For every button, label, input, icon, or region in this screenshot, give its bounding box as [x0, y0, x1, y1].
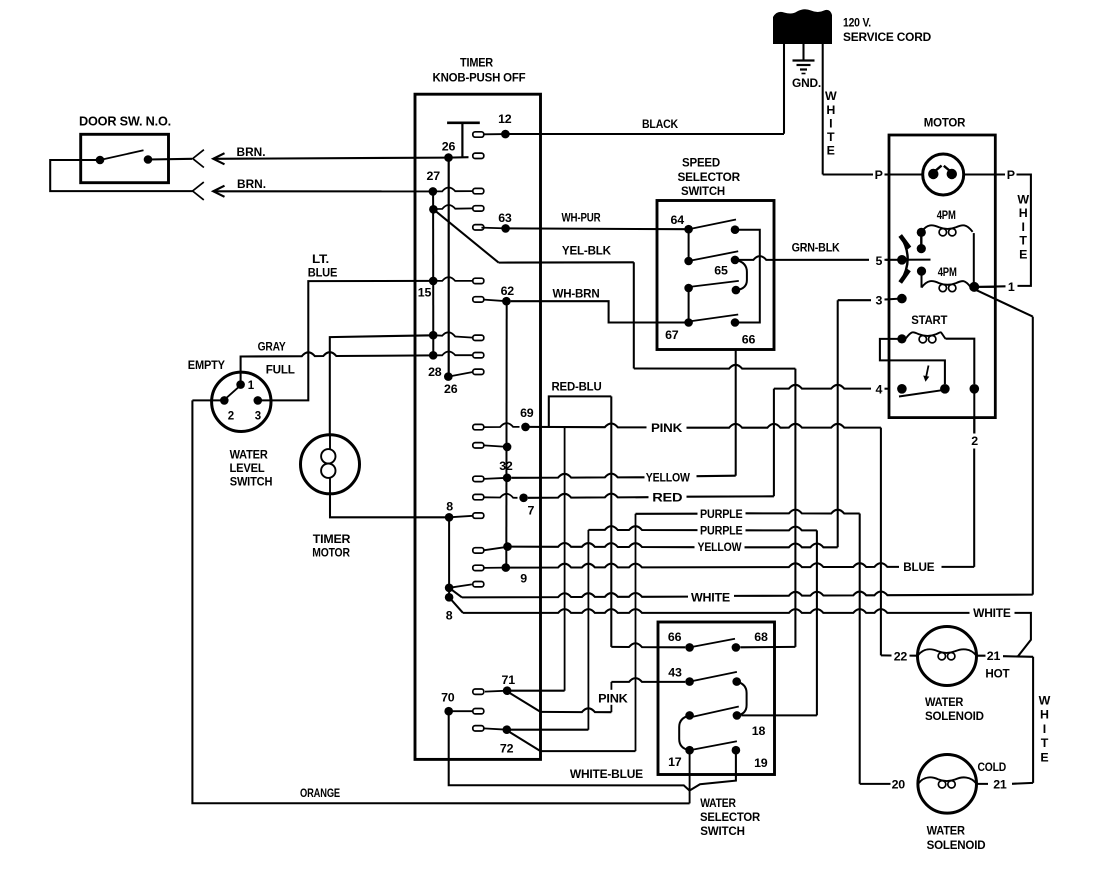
speed sel blade 64 [689, 220, 736, 230]
timer motor coil [329, 436, 331, 449]
wire timer cam to 69 hop [483, 423, 519, 427]
svg-text:20: 20 [892, 777, 906, 791]
speed sel contact r1 [731, 225, 740, 234]
motor start switch blade [899, 390, 947, 397]
water sel blade 43 [690, 672, 737, 682]
timer terminal 28 [444, 372, 453, 381]
wire PINK2 riser lower [610, 705, 612, 712]
wire WHITE diag from timer [449, 588, 462, 598]
timer cam 9 [473, 565, 484, 570]
svg-text:P: P [1007, 168, 1015, 182]
svg-text:SWITCH: SWITCH [230, 474, 273, 488]
wire timer 335 hop to cam [433, 332, 473, 337]
wire motor 3 link [838, 299, 871, 301]
wire YEL-BLK drop to 68 [794, 369, 796, 647]
svg-text:7: 7 [528, 504, 535, 518]
water level contact 3 [253, 396, 262, 405]
motor start winding [906, 332, 946, 339]
wire timer cam to 9 [483, 567, 506, 569]
svg-text:P: P [875, 168, 883, 182]
svg-text:43: 43 [668, 666, 682, 680]
timer knob T-bar [447, 122, 480, 125]
motor node winding1 left [917, 228, 926, 237]
timer terminal 62 [502, 297, 511, 306]
svg-text:SWITCH: SWITCH [681, 184, 725, 198]
svg-text:SOLENOID: SOLENOID [927, 838, 986, 852]
timer cam 584 [473, 582, 484, 587]
svg-text:67: 67 [665, 328, 679, 342]
wire PINK drop to 22 [880, 428, 882, 656]
wire 5 dash [885, 259, 890, 261]
wire timer cam to 445 [484, 445, 507, 447]
motor protector tick right [944, 166, 952, 173]
wire winding1 right drop [973, 233, 975, 287]
svg-text:YEL-BLK: YEL-BLK [562, 243, 611, 257]
svg-text:3: 3 [875, 294, 882, 308]
motor start switch left loop [880, 339, 945, 384]
wire 72 row to purple2 riser [507, 729, 589, 731]
svg-text:W: W [1017, 193, 1029, 207]
svg-text:GRN-BLK: GRN-BLK [792, 241, 840, 255]
timer terminal 26 [444, 153, 453, 162]
wire 18 link [741, 714, 817, 716]
svg-text:9: 9 [520, 572, 527, 586]
wire YEL-BLK diagonal [433, 209, 498, 262]
svg-text:3: 3 [255, 411, 261, 423]
speed sel blade r3 [690, 281, 739, 287]
speed sel blade 67 [690, 315, 739, 322]
svg-text:WHITE-BLUE: WHITE-BLUE [570, 767, 643, 781]
motor protector circle [923, 154, 964, 195]
svg-text:71: 71 [502, 673, 516, 687]
speed sel contact 64 [684, 225, 693, 234]
wire motor P internal right [963, 174, 996, 176]
timer cam timer-motor row [473, 335, 484, 340]
svg-text:T: T [1041, 736, 1049, 750]
water sel blade 17 [690, 741, 737, 750]
svg-text:LEVEL: LEVEL [230, 461, 266, 475]
wire 21 hot right [977, 656, 1034, 657]
svg-text:120 V.: 120 V. [843, 16, 871, 30]
timer cam 71 [473, 689, 484, 694]
wire YEL-BLK lower run [634, 365, 796, 369]
svg-text:26: 26 [444, 382, 458, 396]
svg-text:BRN.: BRN. [237, 177, 266, 191]
wire timer cam to 62 [484, 300, 507, 302]
timer junction timer-motor row [429, 331, 438, 340]
timer cam gray row [473, 353, 484, 358]
svg-text:BRN.: BRN. [237, 145, 266, 159]
svg-text:19: 19 [754, 756, 768, 770]
svg-text:SOLENOID: SOLENOID [925, 709, 984, 723]
water sel contact 17 [685, 746, 694, 755]
wire service cord gnd lead [802, 43, 804, 60]
svg-text:LT.: LT. [312, 252, 329, 266]
water sel contact r2 [732, 677, 741, 686]
motor centrifugal switch arc [901, 237, 908, 282]
wire PURPLE2 left [588, 526, 697, 530]
svg-text:YELLOW: YELLOW [698, 540, 742, 554]
motor node winding2 left [917, 267, 926, 276]
timer left chain vertical [432, 191, 434, 355]
wire PURPLE1 riser [635, 514, 637, 751]
wire ORANGE [192, 400, 689, 803]
wire PINK2 71 to 43 run [541, 708, 612, 712]
svg-text:W: W [825, 89, 837, 103]
svg-text:69: 69 [520, 406, 534, 420]
svg-text:RED-BLU: RED-BLU [552, 380, 602, 394]
svg-text:I: I [1021, 220, 1024, 234]
speed selector switch box [657, 201, 774, 350]
timer cam 63 feed [473, 206, 484, 211]
door switch DOOR SW. N.O. box [81, 134, 169, 182]
svg-text:ORANGE: ORANGE [300, 786, 340, 800]
speed sel blade 65 [689, 251, 739, 261]
water sel contact l3 [685, 711, 694, 720]
timer junction gray row [429, 351, 438, 360]
speed sel contact r3 [732, 286, 741, 295]
svg-text:E: E [1019, 247, 1027, 261]
svg-text:15: 15 [418, 286, 432, 300]
svg-text:WH-BRN: WH-BRN [553, 287, 600, 301]
svg-text:EMPTY: EMPTY [188, 358, 225, 372]
svg-text:66: 66 [668, 630, 682, 644]
svg-text:SELECTOR: SELECTOR [677, 170, 740, 184]
wire timer cam to 63 [481, 227, 505, 230]
wire service cord white down [822, 43, 824, 175]
motor main winding 4PM lower [922, 281, 972, 288]
wire 72 to purple1 riser [541, 750, 636, 752]
wire 68 link [740, 646, 795, 648]
wire WHITE2 to corner [1015, 613, 1031, 657]
timer cam 63 [473, 225, 484, 230]
hot solenoid coil [918, 649, 977, 656]
svg-text:4: 4 [875, 383, 882, 397]
svg-text:COLD: COLD [978, 760, 1007, 774]
timer right chain vertical 62-9 [505, 301, 507, 567]
svg-text:HOT: HOT [985, 666, 1010, 680]
door switch blade [100, 150, 144, 160]
label WHITE vertical service [825, 89, 837, 158]
wire 21 cold [977, 783, 1033, 784]
timer cam 69 [473, 424, 484, 429]
wire P left dash [885, 173, 890, 175]
svg-text:RED: RED [652, 490, 682, 504]
120V service cord plug [773, 9, 832, 44]
wire WHITE-BLUE 70 to 17 [449, 711, 690, 790]
svg-text:WHITE: WHITE [973, 606, 1011, 620]
timer cam 546 [473, 548, 484, 553]
water sel s-curve right [737, 682, 747, 716]
svg-text:28: 28 [428, 365, 442, 379]
svg-text:T: T [827, 130, 835, 144]
svg-text:26: 26 [442, 140, 456, 154]
svg-text:SELECTOR: SELECTOR [700, 810, 760, 824]
wire RED-BLU riser [610, 396, 612, 647]
wire timer cam to 546 [484, 547, 507, 550]
wire timer 27 hop to cam [433, 187, 473, 191]
wire 22 stub [910, 655, 919, 657]
svg-text:63: 63 [498, 211, 512, 225]
svg-text:72: 72 [500, 742, 514, 756]
wire timer cam to 7 hop [484, 494, 518, 498]
connector chevron lower [193, 182, 204, 200]
wire 1 to winding junction [979, 285, 1006, 288]
water sel blade 66 [690, 639, 735, 648]
timer terminal 71 [503, 686, 512, 695]
svg-text:TIMER: TIMER [313, 532, 351, 546]
timer terminal 70 [444, 707, 453, 716]
wire WHITE left [462, 593, 688, 597]
wire GRAY 1 to timer [241, 352, 434, 384]
wire timer cam to 32 [484, 478, 507, 479]
wire WHITE2 run [463, 609, 970, 613]
wire BLACK timer 12 to service cord [505, 133, 784, 135]
svg-text:2: 2 [228, 411, 234, 423]
wire timer 587 to cam [449, 584, 472, 587]
wire timer 355 hop to cam [433, 351, 473, 355]
wire white riser right [1032, 317, 1034, 595]
wire BRN lower to timer 27 [213, 190, 433, 192]
speed sel vertical l3-67 [688, 288, 690, 323]
svg-text:PURPLE: PURPLE [700, 524, 743, 538]
wire white riser far right [1032, 657, 1034, 783]
wire GRN-BLK into motor [886, 259, 898, 261]
wire WHITE right [734, 591, 1033, 595]
wire motor P to white riser [995, 175, 1031, 286]
svg-text:21: 21 [993, 777, 1007, 791]
timer junction yellow2 row [503, 542, 512, 551]
timer junction 445 row [503, 443, 512, 452]
svg-text:70: 70 [441, 691, 455, 705]
motor 5 fixed contact stub [902, 259, 931, 261]
connector arrow upper barbs [213, 153, 224, 164]
timer terminal 69 [521, 423, 530, 432]
svg-text:PURPLE: PURPLE [700, 507, 743, 521]
svg-text:BLUE: BLUE [903, 560, 934, 574]
timer terminal 8 [445, 513, 454, 522]
svg-text:8: 8 [446, 500, 453, 514]
wire timer 26 row to cam [449, 156, 469, 158]
hot water solenoid circle [918, 627, 977, 686]
wire PURPLE1 drop to cold 20 [859, 514, 861, 784]
timer junction white2 row [445, 593, 454, 602]
wire YELLOW riser to speed 66 [735, 350, 737, 476]
wire timer 28 to cam [448, 372, 473, 377]
wire YELLOW2 right [745, 544, 838, 548]
svg-text:I: I [1043, 722, 1046, 736]
wire start coil to right drop [946, 339, 975, 384]
wire 72 diagonal [508, 731, 540, 751]
wire RED 7 segment [528, 494, 649, 498]
wire WH-BRN timer 62 to speed sel 67 [511, 301, 685, 322]
svg-text:27: 27 [427, 169, 441, 183]
svg-text:66: 66 [742, 332, 756, 346]
water sel s-curve left [679, 715, 689, 750]
wire cold 20 link [860, 783, 891, 785]
water sel contact 43 [685, 677, 694, 686]
water sel blade l3 [691, 707, 739, 718]
wire 43 link [611, 678, 685, 682]
motor link winding2 drop [921, 271, 923, 288]
motor terminal 4 [897, 384, 907, 394]
wire timer motor bottom to 8 [330, 494, 449, 518]
water selector switch box [658, 622, 775, 775]
svg-text:GND.: GND. [792, 76, 821, 90]
timer bus vertical 26-28 [448, 158, 450, 377]
wire PURPLE1 right [746, 510, 860, 514]
timer cam 12 [473, 132, 484, 137]
svg-text:MOTOR: MOTOR [312, 545, 350, 559]
svg-text:4PM: 4PM [937, 208, 956, 222]
svg-text:12: 12 [498, 112, 512, 126]
svg-text:FULL: FULL [266, 362, 296, 376]
motor start switch actuator arrow [926, 366, 929, 379]
svg-text:GRAY: GRAY [258, 340, 286, 354]
svg-text:MOTOR: MOTOR [924, 116, 966, 130]
wire RED-BLU to water sel 66 [611, 643, 685, 647]
speed sel contact 65 [731, 256, 740, 265]
cold solenoid coil [918, 777, 977, 784]
wire 71 row [507, 690, 564, 692]
cold water solenoid circle [918, 755, 977, 814]
speed sel contact l3 [684, 284, 693, 293]
svg-text:SWITCH: SWITCH [700, 824, 745, 838]
timer terminal 7 [519, 494, 528, 503]
timer KNOB-PUSH OFF box [415, 94, 541, 759]
svg-text:WATER: WATER [700, 796, 736, 810]
wire timer 8 to cam [449, 516, 473, 518]
wire PINK 69 segment [526, 423, 647, 427]
door switch right contact [144, 155, 153, 164]
wire WHITE2 diag from timer [449, 597, 463, 613]
svg-text:32: 32 [499, 459, 513, 473]
wire RED-BLU loop [549, 396, 612, 427]
wire door switch return loop [50, 160, 192, 191]
timer cam 28 [473, 369, 484, 374]
motor node start right [970, 384, 980, 394]
speed sel vertical 64-l2 [688, 229, 690, 261]
svg-text:WATER: WATER [927, 824, 966, 838]
wire motor 2 drop [973, 389, 975, 434]
timer cam 70 [473, 709, 484, 714]
motor protector tick left [933, 166, 941, 173]
speed sel contact l2 [684, 257, 693, 266]
wire 71 diagonal [509, 692, 541, 712]
timer cam 72 [473, 726, 484, 731]
speed sel s-curve 65-r3 [735, 260, 747, 290]
motor box [889, 135, 995, 418]
wire 71 riser [564, 428, 566, 691]
svg-text:START: START [911, 313, 948, 327]
ground symbol [793, 61, 815, 74]
wire YELLOW2 riser to motor 3 [837, 300, 839, 547]
motor node winding1 lower [917, 244, 926, 253]
wire timer cam to 12 [484, 133, 506, 135]
wire door switch to plug [148, 158, 192, 161]
label WHITE vertical right [1039, 694, 1051, 765]
wire PURPLE2 right [746, 527, 817, 531]
svg-text:WH-PUR: WH-PUR [562, 211, 601, 225]
wire 19 drop and link [690, 750, 736, 790]
timer terminal 72 [503, 725, 512, 734]
wire BLUE right [942, 566, 975, 568]
water level switch circle [212, 372, 271, 431]
water level contact 2 [220, 396, 229, 405]
wire YELLOW 32 segment [511, 474, 644, 478]
timer cam row 26 [473, 153, 484, 158]
timer terminal 32 [503, 474, 512, 483]
wire YEL-BLK riser [633, 262, 635, 368]
svg-text:H: H [1040, 708, 1049, 722]
timer junction white row [445, 584, 454, 593]
svg-text:2: 2 [971, 434, 978, 448]
timer cam 7 [473, 494, 484, 499]
timer cam 62 [473, 297, 484, 302]
svg-text:62: 62 [501, 284, 515, 298]
wire service white to motor P [823, 173, 873, 175]
timer junction node 63fd [429, 205, 438, 214]
wire motor 1 diagonal [977, 290, 1033, 316]
svg-text:8: 8 [446, 609, 453, 623]
svg-text:4PM: 4PM [938, 265, 957, 279]
wire RED riser [773, 389, 775, 497]
svg-text:H: H [826, 103, 835, 117]
wire YELLOW2 left [508, 543, 695, 547]
wire junction1 to box edge [974, 286, 995, 288]
svg-text:1: 1 [1008, 280, 1015, 294]
wire timer 209 hop to cam [433, 205, 472, 209]
svg-text:22: 22 [894, 649, 908, 663]
wire WH-PUR timer 63 to speed sel 64 [506, 227, 689, 230]
motor main winding 4PM upper [921, 225, 972, 232]
motor node start middle [940, 384, 950, 394]
svg-text:SERVICE CORD: SERVICE CORD [843, 30, 931, 44]
motor junction 1 [969, 282, 979, 292]
timer cam 15 [473, 278, 484, 283]
timer vertical 8 chain [448, 517, 450, 597]
timer terminal 15 [429, 277, 438, 286]
motor node start coil left [897, 334, 906, 343]
motor protector contact right [947, 169, 957, 179]
wire PINK right segment [687, 424, 881, 428]
water sel contact 66 [685, 643, 694, 652]
svg-text:21: 21 [987, 649, 1001, 663]
svg-text:18: 18 [752, 724, 766, 738]
water level contact 1 [236, 380, 245, 389]
water sel contact 68 [732, 643, 741, 652]
svg-text:68: 68 [754, 630, 768, 644]
svg-text:PINK: PINK [651, 421, 682, 435]
wire 22 left [881, 654, 892, 656]
svg-text:5: 5 [875, 254, 882, 268]
svg-text:BLUE: BLUE [308, 265, 338, 279]
wire BRN upper to timer 26 [213, 158, 448, 159]
wire timer 15 hop to cam [433, 277, 473, 281]
timer motor circle [301, 435, 360, 494]
wire timer cam to 71 [485, 690, 507, 693]
wire YELLOW right segment [697, 475, 736, 478]
door switch left contact [96, 156, 105, 165]
wire 3 dash [885, 298, 890, 300]
connector chevron upper [193, 150, 204, 168]
speed sel link r1 to 66 [735, 230, 760, 323]
water sel contact 18 [733, 711, 742, 720]
wire RED to motor 4 [774, 385, 871, 389]
timer terminal 63 [501, 224, 510, 233]
svg-text:WATER: WATER [230, 447, 268, 461]
svg-text:PINK: PINK [598, 691, 628, 705]
